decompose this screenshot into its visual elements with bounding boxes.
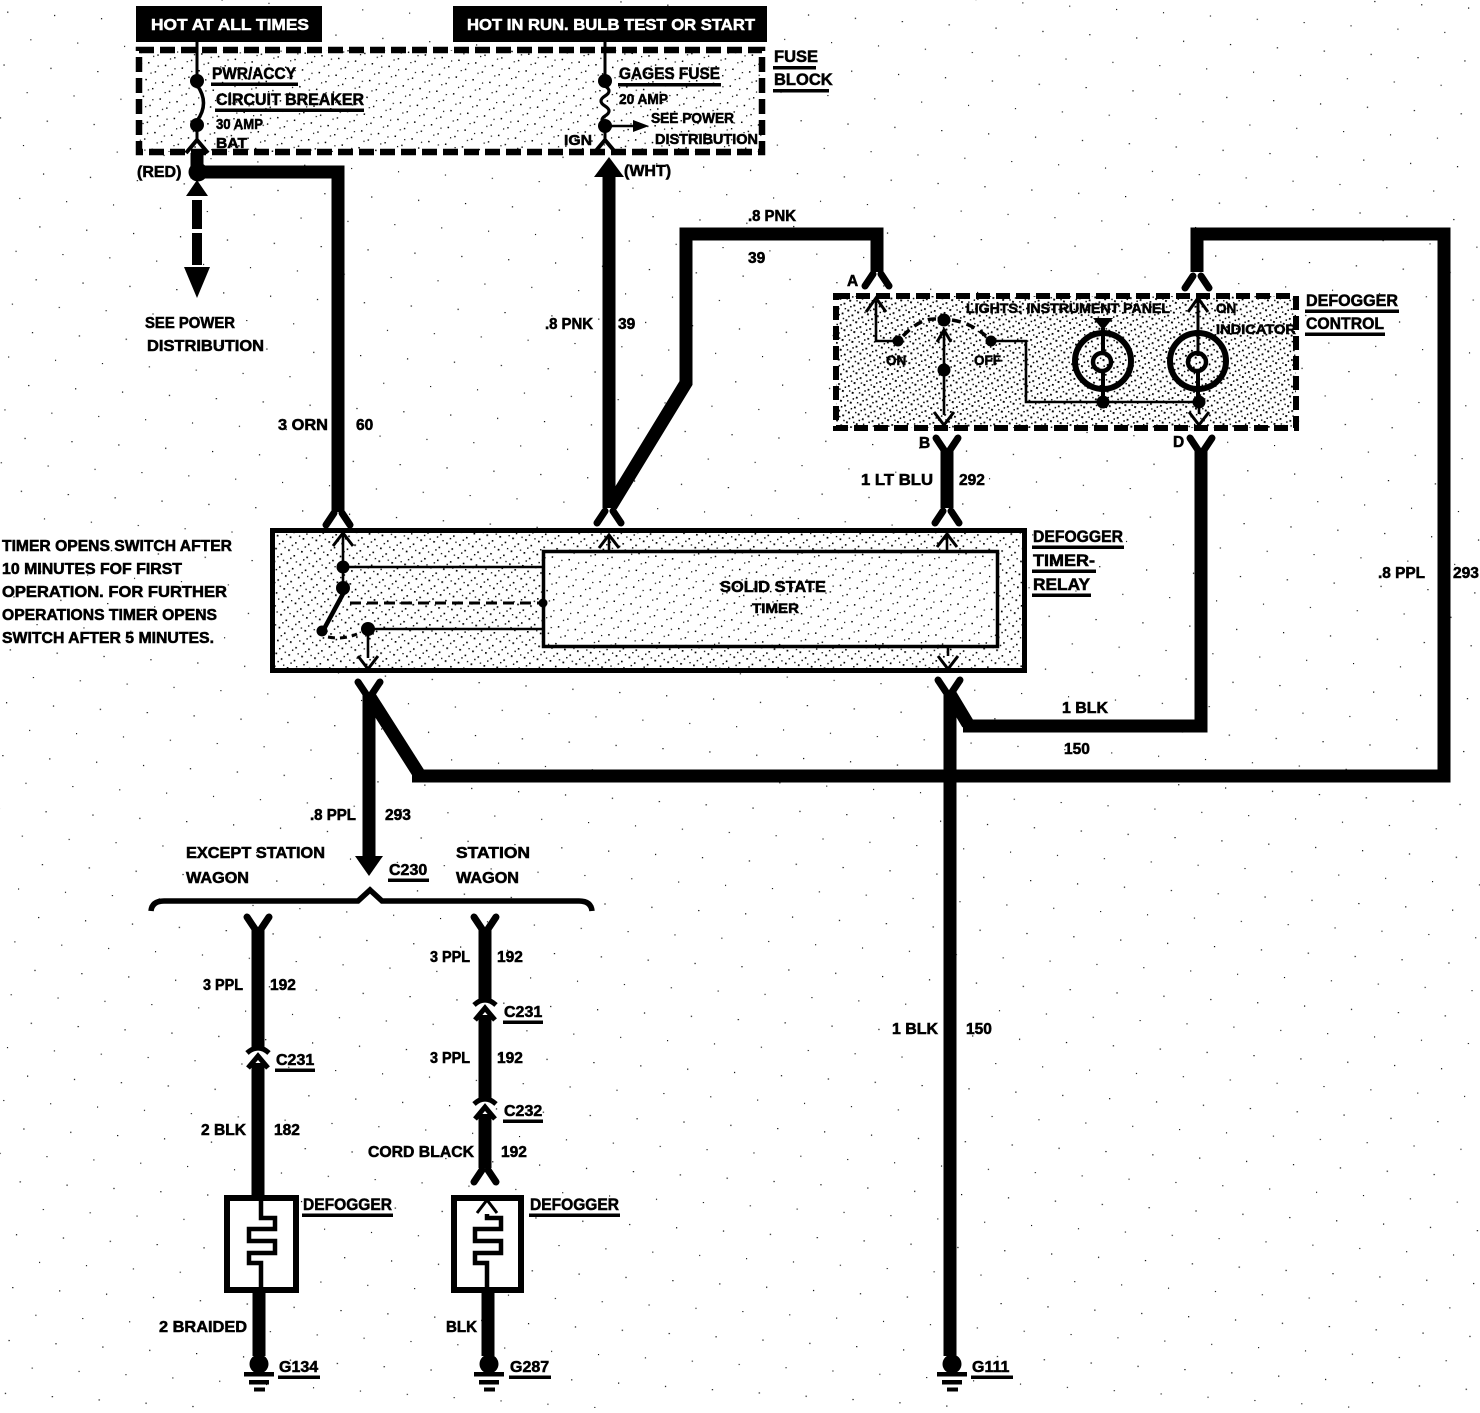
wire 3 PPL 192 left branch bbox=[203, 917, 296, 1049]
relay terminal arrow 3 ORN input bbox=[333, 533, 353, 588]
svg-text:PWR/ACCY: PWR/ACCY bbox=[212, 65, 296, 83]
svg-text:1 BLK: 1 BLK bbox=[892, 1021, 939, 1038]
svg-text:150: 150 bbox=[1064, 741, 1090, 758]
connector C231 right bbox=[474, 1000, 543, 1024]
svg-text:DEFOGGER: DEFOGGER bbox=[1306, 291, 1398, 310]
svg-text:SEE POWER: SEE POWER bbox=[651, 110, 734, 127]
svg-text:60: 60 bbox=[356, 417, 373, 434]
svg-text:IGN: IGN bbox=[564, 132, 592, 149]
svg-text:(RED): (RED) bbox=[137, 164, 181, 181]
svg-text:TIMER: TIMER bbox=[752, 600, 799, 616]
circuit breaker PWR/ACCY bbox=[190, 65, 364, 152]
svg-text:FUSE: FUSE bbox=[774, 48, 818, 66]
svg-text:DISTRIBUTION: DISTRIBUTION bbox=[147, 338, 264, 355]
svg-text:TIMER-: TIMER- bbox=[1033, 552, 1095, 570]
svg-text:C231: C231 bbox=[504, 1004, 542, 1021]
solid state timer inner box bbox=[544, 552, 998, 647]
fuse block box bbox=[139, 48, 833, 152]
svg-text:3 PPL: 3 PPL bbox=[430, 1050, 470, 1067]
svg-text:BLK: BLK bbox=[446, 1319, 478, 1336]
connector C231 left bbox=[247, 1048, 315, 1072]
svg-text:EXCEPT STATION: EXCEPT STATION bbox=[186, 845, 325, 862]
terminal D chevron and label bbox=[1173, 434, 1212, 451]
svg-text:293: 293 bbox=[385, 807, 411, 824]
svg-text:.8 PNK: .8 PNK bbox=[748, 208, 797, 225]
svg-text:B: B bbox=[919, 435, 930, 452]
svg-text:C230: C230 bbox=[389, 862, 427, 879]
wire BLK bbox=[446, 1293, 488, 1356]
connector C230 bbox=[388, 862, 429, 882]
ground G134 bbox=[244, 1355, 320, 1392]
svg-text:INDICATOR: INDICATOR bbox=[1216, 322, 1296, 337]
power label HOT AT ALL TIMES bbox=[136, 6, 322, 42]
svg-text:(WHT): (WHT) bbox=[624, 163, 671, 180]
svg-text:CONTROL: CONTROL bbox=[1306, 314, 1384, 333]
svg-text:3 PPL: 3 PPL bbox=[203, 977, 243, 994]
wire 3 ORN 60 from breaker to timer relay bbox=[189, 153, 374, 525]
svg-text:A: A bbox=[847, 273, 858, 290]
svg-text:CIRCUIT BREAKER: CIRCUIT BREAKER bbox=[216, 91, 364, 109]
svg-text:OFF: OFF bbox=[974, 353, 1001, 368]
wire from HOT IN RUN to gages fuse bbox=[604, 42, 607, 76]
lamp instrument panel bbox=[1075, 318, 1131, 409]
ground G287 bbox=[474, 1355, 551, 1392]
svg-text:GAGES FUSE: GAGES FUSE bbox=[619, 65, 720, 83]
svg-text:.8 PNK: .8 PNK bbox=[545, 316, 594, 333]
connector C232 bbox=[474, 1099, 543, 1123]
fuse GAGES FUSE bbox=[598, 65, 721, 133]
svg-text:D: D bbox=[1173, 434, 1184, 451]
wire .8 PPL 293 timer output to C230 bbox=[310, 682, 419, 876]
svg-text:WAGON: WAGON bbox=[186, 870, 249, 887]
switch S1 ON/OFF bbox=[886, 314, 1001, 369]
ground G111 bbox=[937, 1355, 1013, 1392]
svg-text:150: 150 bbox=[966, 1021, 992, 1038]
wire from HOT AT ALL TIMES to circuit breaker bbox=[196, 42, 199, 76]
lamp ON indicator bbox=[1170, 298, 1296, 425]
svg-text:TIMER OPENS SWITCH AFTER: TIMER OPENS SWITCH AFTER bbox=[2, 538, 232, 555]
wire .8 PPL 293 right side loop bbox=[412, 234, 1479, 776]
svg-text:LIGHTS: INSTRUMENT PANEL: LIGHTS: INSTRUMENT PANEL bbox=[966, 301, 1170, 316]
svg-text:.8 PPL: .8 PPL bbox=[310, 807, 356, 824]
svg-text:DEFOGGER: DEFOGGER bbox=[303, 1195, 392, 1214]
svg-text:HOT AT ALL TIMES: HOT AT ALL TIMES bbox=[151, 17, 309, 34]
svg-text:C232: C232 bbox=[504, 1103, 542, 1120]
wire from OFF contact to lamps bbox=[996, 341, 1194, 402]
svg-text:DISTRIBUTION: DISTRIBUTION bbox=[655, 131, 758, 148]
relay contact wiring bbox=[317, 561, 959, 670]
branch brace bbox=[151, 845, 592, 911]
defogger grid left bbox=[227, 1195, 393, 1290]
svg-text:SWITCH AFTER 5 MINUTES.: SWITCH AFTER 5 MINUTES. bbox=[2, 630, 214, 647]
svg-text:WAGON: WAGON bbox=[456, 870, 519, 887]
svg-text:CORD BLACK: CORD BLACK bbox=[368, 1144, 475, 1161]
BAT terminal bbox=[186, 140, 208, 153]
wire 2 BRAIDED bbox=[159, 1293, 259, 1356]
see power distribution arrow inside fuse block bbox=[605, 110, 758, 148]
svg-text:39: 39 bbox=[618, 316, 636, 333]
dashed arrow SEE POWER DISTRIBUTION bbox=[145, 180, 264, 355]
svg-text:BLOCK: BLOCK bbox=[774, 71, 833, 89]
svg-text:39: 39 bbox=[748, 250, 766, 267]
svg-text:BAT: BAT bbox=[216, 135, 247, 152]
svg-text:192: 192 bbox=[497, 1050, 523, 1067]
wire 3 PPL 192 right branch lower bbox=[430, 1015, 523, 1099]
relay terminal arrow LT BLU input bbox=[937, 534, 957, 552]
wire 1 BLK 150 timer to ground and to D bbox=[892, 448, 1201, 1356]
svg-text:1 LT BLU: 1 LT BLU bbox=[861, 472, 933, 489]
svg-text:2 BRAIDED: 2 BRAIDED bbox=[159, 1319, 247, 1336]
wire .8 PNK 39 branch to defogger control A bbox=[611, 208, 889, 506]
svg-text:182: 182 bbox=[274, 1122, 300, 1139]
power label HOT IN RUN, BULB TEST OR START bbox=[453, 6, 767, 42]
svg-text:292: 292 bbox=[959, 472, 985, 489]
svg-text:DEFOGGER: DEFOGGER bbox=[530, 1195, 619, 1214]
svg-text:20 AMP: 20 AMP bbox=[619, 91, 668, 108]
terminal A internal arrow bbox=[866, 298, 893, 341]
svg-text:G287: G287 bbox=[510, 1359, 549, 1376]
svg-text:ON: ON bbox=[886, 353, 906, 368]
svg-text:3 PPL: 3 PPL bbox=[430, 949, 470, 966]
svg-text:2 BLK: 2 BLK bbox=[201, 1122, 247, 1139]
defogger grid right bbox=[454, 1195, 620, 1290]
wire CORD BLACK 192 bbox=[368, 1114, 527, 1182]
svg-text:HOT IN RUN. BULB TEST OR START: HOT IN RUN. BULB TEST OR START bbox=[467, 17, 756, 34]
svg-text:10 MINUTES FOF FIRST: 10 MINUTES FOF FIRST bbox=[2, 561, 183, 578]
svg-text:G111: G111 bbox=[972, 1359, 1009, 1376]
svg-text:OPERATION. FOR FURTHER: OPERATION. FOR FURTHER bbox=[2, 584, 227, 601]
timer note text bbox=[2, 538, 232, 647]
svg-text:192: 192 bbox=[501, 1144, 527, 1161]
terminal B internal arrow and wire bbox=[934, 330, 954, 425]
defogger timer-relay box bbox=[273, 528, 1125, 671]
svg-text:SOLID STATE: SOLID STATE bbox=[720, 579, 826, 596]
svg-text:30 AMP: 30 AMP bbox=[216, 116, 263, 133]
svg-text:ON: ON bbox=[1216, 301, 1236, 316]
svg-text:STATION: STATION bbox=[456, 845, 530, 862]
defogger control top right terminal chevron bbox=[1185, 240, 1209, 288]
wire 2 BLK 182 bbox=[201, 1063, 300, 1196]
svg-text:DEFOGGER: DEFOGGER bbox=[1033, 528, 1123, 546]
wire 3 PPL 192 right branch upper bbox=[430, 917, 523, 1000]
svg-text:1 BLK: 1 BLK bbox=[1062, 700, 1109, 717]
defogger control box bbox=[836, 291, 1399, 428]
svg-text:RELAY: RELAY bbox=[1033, 576, 1090, 594]
svg-text:293: 293 bbox=[1453, 565, 1479, 582]
svg-text:.8 PPL: .8 PPL bbox=[1378, 565, 1425, 582]
IGN terminal bbox=[564, 131, 616, 153]
svg-text:3 ORN: 3 ORN bbox=[278, 417, 328, 434]
terminal B chevron and label bbox=[919, 435, 958, 452]
wire 1 LT BLU 292 bbox=[861, 449, 985, 523]
svg-text:SEE POWER: SEE POWER bbox=[145, 315, 235, 332]
svg-text:C231: C231 bbox=[276, 1052, 314, 1069]
svg-text:G134: G134 bbox=[279, 1359, 318, 1376]
node WHT / wire .8 PNK 39 vertical bbox=[545, 157, 671, 523]
svg-text:192: 192 bbox=[497, 949, 523, 966]
svg-text:192: 192 bbox=[270, 977, 296, 994]
relay terminal arrow PNK input bbox=[599, 535, 619, 552]
svg-text:OPERATIONS TIMER OPENS: OPERATIONS TIMER OPENS bbox=[2, 607, 217, 624]
